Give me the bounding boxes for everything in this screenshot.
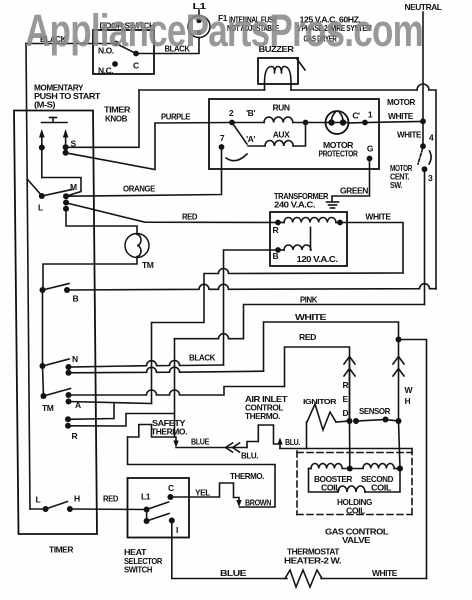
wire N lower xyxy=(69,367,264,373)
svg-text:RED: RED xyxy=(182,212,197,222)
svg-text:TIMER: TIMER xyxy=(49,545,73,555)
buzzer box xyxy=(258,58,298,84)
connector chevrons red xyxy=(344,357,355,365)
svg-text:AUX: AUX xyxy=(273,130,290,140)
svg-text:7: 7 xyxy=(220,133,225,143)
wire TM to common xyxy=(43,258,137,291)
svg-text:WHITE: WHITE xyxy=(388,111,414,121)
svg-text:D: D xyxy=(343,408,349,418)
ground xyxy=(327,201,339,203)
transformer secondary winding 120 V.A.C. xyxy=(284,245,311,250)
junction ignitor/red xyxy=(347,418,353,424)
svg-text:RED: RED xyxy=(299,332,316,342)
wire aux to junction xyxy=(293,123,305,147)
wire between coils xyxy=(342,468,363,470)
wire B (hot) with jumps xyxy=(67,284,436,290)
selector blade L1-C xyxy=(147,502,169,510)
svg-text:4: 4 xyxy=(429,133,434,143)
svg-text:PURPLE: PURPLE xyxy=(161,112,191,122)
motor switch blade xyxy=(232,123,247,145)
wire blue bottom xyxy=(172,521,287,579)
svg-text:R: R xyxy=(273,225,279,235)
svg-text:VALVE: VALVE xyxy=(342,535,371,545)
transformer T1 box xyxy=(270,212,347,266)
wire hot bus left segment xyxy=(139,89,265,91)
contact R terminals xyxy=(65,416,71,422)
push button T xyxy=(42,122,68,124)
transformer primary winding xyxy=(284,217,336,222)
svg-text:TM: TM xyxy=(42,403,54,413)
ignitor element xyxy=(307,404,336,430)
wire blue xyxy=(176,447,247,449)
wire jump over neutral xyxy=(417,84,429,90)
svg-text:B: B xyxy=(73,294,79,304)
svg-text:WHITE: WHITE xyxy=(295,312,327,322)
selector blade to I xyxy=(147,514,169,522)
buzzer coil xyxy=(265,67,292,84)
aux winding xyxy=(248,145,265,147)
svg-text:WHITE: WHITE xyxy=(365,212,391,222)
svg-text:TM: TM xyxy=(142,260,154,270)
gas control valve dashed box xyxy=(297,452,412,454)
blade L-M xyxy=(42,190,72,197)
motor box xyxy=(209,99,379,169)
svg-text:THERMO.: THERMO. xyxy=(151,427,187,437)
wire blu to valve xyxy=(280,448,412,450)
transformer center tap xyxy=(310,228,312,251)
svg-text:AppliancePartsPros.com: AppliancePartsPros.com xyxy=(25,5,423,56)
booster coil xyxy=(309,468,312,470)
svg-text:ORANGE: ORANGE xyxy=(123,184,156,194)
fuse F1 xyxy=(188,16,210,38)
svg-text:H: H xyxy=(405,396,411,406)
junction run/aux xyxy=(303,120,309,126)
wire A lower / R upper xyxy=(68,402,152,420)
svg-text:BLUE: BLUE xyxy=(220,568,247,578)
svg-text:WHITE: WHITE xyxy=(372,568,398,578)
wire R lower xyxy=(68,414,175,427)
svg-text:SWITCH: SWITCH xyxy=(124,565,152,575)
selector lower pivot xyxy=(144,518,150,524)
contact TM xyxy=(41,393,47,399)
svg-text:BLU.: BLU. xyxy=(285,437,300,447)
door switch blade xyxy=(116,44,136,54)
svg-text:SW.: SW. xyxy=(390,180,402,190)
svg-text:HEATER-2 W.: HEATER-2 W. xyxy=(284,556,341,566)
svg-text:BROWN: BROWN xyxy=(245,498,271,508)
holding coil box xyxy=(309,469,339,493)
wire red branch xyxy=(285,347,350,421)
svg-text:THERMO.: THERMO. xyxy=(230,471,264,481)
selector terminal I xyxy=(169,518,175,524)
svg-text:(M-S): (M-S) xyxy=(34,100,56,110)
wire orange xyxy=(66,147,222,196)
door switch terminal C xyxy=(133,51,139,57)
svg-text:RUN: RUN xyxy=(272,103,289,113)
buzzer flag xyxy=(297,59,305,70)
svg-text:BLACK: BLACK xyxy=(189,353,216,363)
svg-text:THERMO.: THERMO. xyxy=(245,411,280,421)
wire thermo loop / brown xyxy=(128,437,276,507)
svg-text:COIL: COIL xyxy=(346,506,365,516)
junction white/red xyxy=(396,337,402,343)
svg-text:N.C.: N.C. xyxy=(98,66,113,76)
svg-text:COIL: COIL xyxy=(371,483,391,493)
wire hot bus down right side xyxy=(429,90,436,289)
svg-text:I: I xyxy=(176,525,178,535)
wire A upper xyxy=(69,387,285,396)
wire white bus xyxy=(264,322,399,371)
junction booster coil xyxy=(347,466,353,472)
svg-text:GREEN: GREEN xyxy=(340,186,368,196)
wire neutral xyxy=(422,12,424,121)
svg-text:L: L xyxy=(36,495,41,505)
svg-text:KNOB: KNOB xyxy=(105,114,127,124)
svg-text:MOTOR: MOTOR xyxy=(387,97,415,107)
svg-text:WHITE: WHITE xyxy=(397,130,422,140)
svg-text:L1: L1 xyxy=(141,492,151,502)
heat selector switch box xyxy=(128,478,190,538)
svg-text:120 V.A.C.: 120 V.A.C. xyxy=(297,254,338,264)
wire transformer B down xyxy=(224,250,279,365)
timer box xyxy=(14,111,97,535)
wire hot bus right segment xyxy=(291,89,417,91)
svg-text:3: 3 xyxy=(428,173,433,183)
wire red to heat selector xyxy=(70,508,147,511)
door switch terminal N.C. xyxy=(112,61,118,67)
wire xyxy=(348,122,365,125)
svg-text:N: N xyxy=(72,354,78,364)
wire N upper xyxy=(69,361,224,368)
svg-text:SENSOR: SENSOR xyxy=(359,406,390,416)
connector chevrons white xyxy=(393,357,404,365)
wire purple xyxy=(66,123,232,170)
svg-text:BLU.: BLU. xyxy=(241,451,258,461)
svg-text:PROTECTOR: PROTECTOR xyxy=(319,149,358,159)
SECTION: bottom xyxy=(124,394,427,587)
contact B xyxy=(40,287,46,293)
cycling thermostat xyxy=(170,483,239,500)
svg-text:C: C xyxy=(133,61,139,71)
svg-text:E: E xyxy=(343,394,349,404)
wire black feed xyxy=(26,43,116,45)
centrifugal arc xyxy=(226,154,247,161)
wire xyxy=(154,38,199,54)
svg-text:RED: RED xyxy=(103,494,118,504)
wire pink drop to safety xyxy=(174,339,176,437)
push button left leg xyxy=(39,129,45,138)
svg-text:BLUE: BLUE xyxy=(191,437,210,447)
motor protector xyxy=(326,111,349,134)
svg-text:PINK: PINK xyxy=(300,295,318,305)
motor terminal 2 xyxy=(229,120,235,126)
buzzer leads xyxy=(264,84,266,90)
svg-text:YEL: YEL xyxy=(195,488,210,498)
wire xyxy=(198,10,200,16)
thermostat heater element xyxy=(285,570,322,587)
svg-text:IGNITOR: IGNITOR xyxy=(303,397,337,406)
wire motor white xyxy=(365,122,423,123)
SECTION: timer xyxy=(14,44,278,555)
wire red to transformer xyxy=(66,203,278,223)
svg-text:H: H xyxy=(74,494,80,504)
svg-text:'A': 'A' xyxy=(246,134,255,144)
wire door switch C to fuse xyxy=(136,53,154,55)
svg-text:COIL: COIL xyxy=(321,483,340,493)
door switch terminal N.O. xyxy=(113,41,119,47)
svg-text:C': C' xyxy=(352,111,360,121)
contact L-H xyxy=(43,506,49,512)
svg-text:C: C xyxy=(168,483,174,493)
SECTION: top xyxy=(26,1,442,365)
second coil xyxy=(363,464,394,469)
timer motor TM xyxy=(66,209,137,234)
wire ignitor to blu xyxy=(306,422,308,449)
wire to M xyxy=(42,178,81,197)
wire pink feeder xyxy=(175,305,425,339)
wire to L xyxy=(27,179,42,196)
SECTION: middle xyxy=(67,269,436,579)
svg-text:R: R xyxy=(343,380,349,390)
wire green xyxy=(332,159,370,202)
svg-text:'B': 'B' xyxy=(246,108,255,118)
svg-text:240 V.A.C.: 240 V.A.C. xyxy=(274,200,315,210)
svg-text:1: 1 xyxy=(368,110,373,120)
svg-text:R: R xyxy=(72,431,78,441)
svg-text:G: G xyxy=(367,144,374,154)
wire white bottom xyxy=(321,578,427,580)
wire run to protector xyxy=(293,122,326,124)
push button right leg xyxy=(63,129,69,138)
svg-text:L: L xyxy=(38,203,43,213)
common xyxy=(42,290,44,366)
connector chevrons xyxy=(233,443,240,452)
run winding xyxy=(232,122,264,124)
contact N xyxy=(40,363,46,369)
wire white return xyxy=(152,269,404,404)
wire to bottom right bus xyxy=(399,340,427,579)
motor centrifugal switch xyxy=(422,121,424,146)
wire S to bus xyxy=(66,90,139,147)
svg-text:2: 2 xyxy=(229,108,234,118)
door switch S1 box xyxy=(93,30,154,74)
junction second coil xyxy=(397,466,403,472)
junction neutral/motor white xyxy=(420,118,426,124)
wire black feed down xyxy=(26,44,30,510)
wires down to valve coils xyxy=(349,421,351,469)
